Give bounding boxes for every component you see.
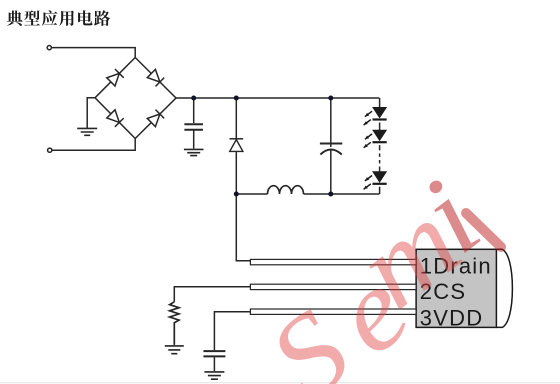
wire bottom rail left [236,193,267,195]
diode bridge D1 top-left [107,73,120,86]
inductor L1 [268,186,304,194]
wire bottom rail right [304,193,380,195]
wire top rail [176,97,379,99]
wire VDD to capacitor [214,312,250,350]
diode bridge D3 bottom-left [107,110,120,123]
diode D5 freewheel [230,139,244,152]
wire C1 lower [193,131,195,149]
capacitor C3 [203,351,225,356]
capacitor C2 [320,144,342,155]
terminal ACL [47,46,51,50]
junction node B [234,96,239,101]
IC U1 body [416,249,496,327]
pin 1 lead [250,259,416,264]
junction node E [328,192,333,197]
LED D8 [373,172,387,182]
terminal ACN [48,148,52,152]
resistor R1 [170,302,179,345]
LED string wires [379,98,381,194]
wire C2 upper [330,98,332,147]
wire C3 lower [213,357,215,371]
ground C1 [184,149,204,155]
diode bridge D2 top-right [147,69,160,82]
pin 2 lead [250,284,416,289]
capacitor C1 [184,124,203,129]
wire C1 upper [193,98,195,123]
wire ACN to bridge bottom [52,139,135,151]
junction node D [234,192,239,197]
diode bridge D4 bottom-right [147,114,160,127]
junction node C [328,96,333,101]
LED D7 [373,130,387,140]
wire drain down [236,194,250,261]
wire D5 upper [235,98,237,139]
wire D5 lower [235,151,237,194]
wire ACL to bridge top [52,48,136,58]
bridge diamond wires [95,58,176,139]
ground R1 [165,346,184,354]
watermark stroke extra [466,213,501,247]
ground bridge [77,128,97,135]
page edge line [0,382,560,384]
wire C2 lower [330,150,332,194]
IC U1 body tab [496,249,512,327]
junction node A [191,96,196,101]
wire bridge left to ground [87,98,95,128]
pin 3 lead [250,309,416,314]
LED D6 [373,107,387,117]
wire CS to resistor [174,287,250,302]
title 典型应用电路 [7,10,110,26]
ground C3 [204,372,224,379]
